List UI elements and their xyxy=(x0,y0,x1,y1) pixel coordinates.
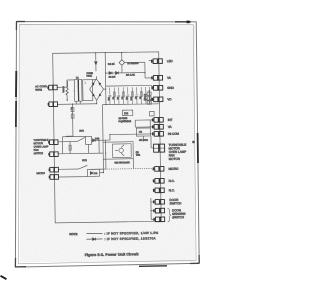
svg-text:Figure 5-2. Power Unit Circuit: Figure 5-2. Power Unit Circuit xyxy=(85,252,140,257)
svg-text:MICRO: MICRO xyxy=(168,167,179,171)
svg-text:R8 4.7K: R8 4.7K xyxy=(126,74,135,77)
svg-text:INT: INT xyxy=(168,118,173,122)
svg-text:IN-COM: IN-COM xyxy=(168,132,180,136)
svg-text:TR1: TR1 xyxy=(136,154,141,157)
svg-text:RY1: RY1 xyxy=(79,130,84,133)
svg-text:FUSE1: FUSE1 xyxy=(62,86,64,93)
svg-text:GND: GND xyxy=(167,86,175,90)
svg-text:4M 5CN: 4M 5CN xyxy=(139,139,148,142)
svg-text:LED: LED xyxy=(167,59,174,63)
svg-text:GE KRC243M: GE KRC243M xyxy=(114,161,129,164)
svg-text:MOTOR: MOTOR xyxy=(34,151,44,155)
svg-text:N.C.: N.C. xyxy=(169,179,175,183)
svg-text:MOTOR: MOTOR xyxy=(169,157,181,161)
svg-text:D2 0B20B: D2 0B20B xyxy=(127,62,138,65)
svg-text:MICRO: MICRO xyxy=(36,171,45,175)
svg-text:WIRE: WIRE xyxy=(35,88,42,92)
svg-text:D10: D10 xyxy=(95,137,100,140)
svg-text:RY2: RY2 xyxy=(82,159,87,162)
svg-text:: IF NOT SPECIFIED, 1/4W 1.5%: : IF NOT SPECIFIED, 1/4W 1.5% xyxy=(104,231,158,236)
svg-text:D3 D5: D3 D5 xyxy=(109,76,116,79)
svg-text:N.C.: N.C. xyxy=(169,188,175,192)
svg-text:PQ05RB61: PQ05RB61 xyxy=(118,120,131,123)
svg-text:R4 2K: R4 2K xyxy=(108,63,115,66)
svg-text:SWITCH: SWITCH xyxy=(172,215,184,219)
svg-text:F101: F101 xyxy=(87,75,93,78)
svg-text:IC2: IC2 xyxy=(124,111,129,115)
svg-text:SWITCH: SWITCH xyxy=(169,201,181,205)
svg-text:NOTE: NOTE xyxy=(69,232,77,236)
svg-text:VA: VA xyxy=(167,76,171,80)
svg-text:: IF NOT SPECIFIED, 1SS270A: : IF NOT SPECIFIED, 1SS270A xyxy=(104,236,156,241)
svg-text:VA: VA xyxy=(168,125,172,129)
